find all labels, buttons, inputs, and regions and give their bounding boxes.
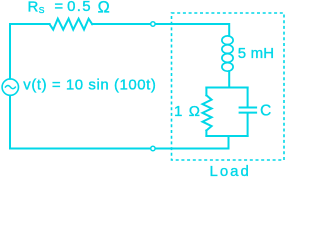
svg-text:1 Ω: 1 Ω (174, 103, 201, 120)
svg-text:Load: Load (210, 163, 251, 179)
svg-text:v(t) = 10 sin (100t): v(t) = 10 sin (100t) (23, 77, 156, 94)
svg-text:5 mH: 5 mH (238, 45, 274, 62)
svg-text:C: C (260, 103, 271, 120)
svg-text:RS = 0.5 Ω: RS = 0.5 Ω (28, 0, 112, 16)
